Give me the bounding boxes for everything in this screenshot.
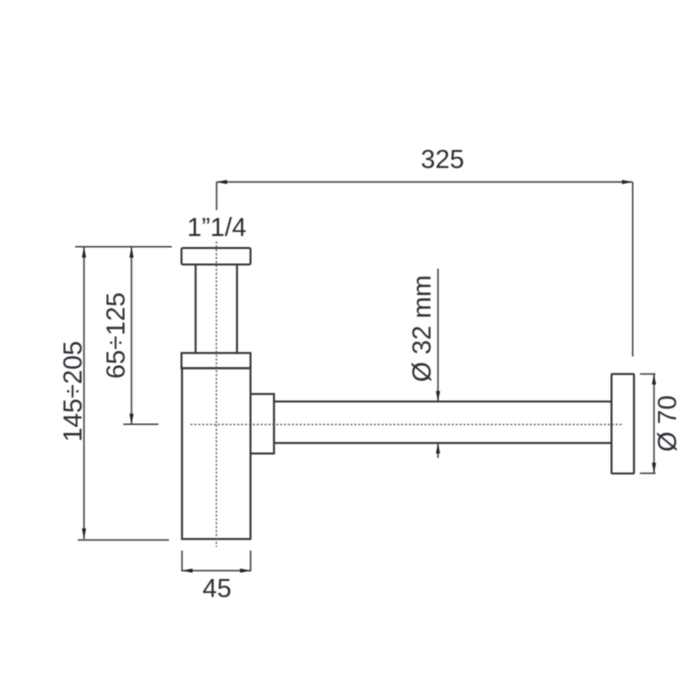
svg-text:145÷205: 145÷205: [58, 341, 88, 442]
svg-text:Ø 32 mm: Ø 32 mm: [407, 275, 437, 382]
compression nut: [182, 353, 251, 368]
label 1"1/4: [187, 212, 246, 242]
flange top extension line: [75, 246, 172, 248]
dimension Ø70 line: [652, 374, 656, 473]
dimension 65÷125 label: [101, 292, 131, 379]
horizontal wall tube: [274, 402, 612, 444]
dimension 65÷125 line: [129, 247, 133, 424]
dimension Ø32 lower line: [436, 443, 440, 458]
dimension Ø32 upper line: [436, 269, 440, 402]
vertical centerline: [215, 242, 217, 548]
dimension Ø70 bottom tick: [640, 472, 656, 474]
svg-text:1”1/4: 1”1/4: [187, 212, 246, 242]
dimension 325 left extension line: [216, 182, 218, 210]
dimension 45 line: [182, 569, 251, 573]
outlet axis tick: [123, 423, 158, 425]
horizontal centerline: [191, 424, 624, 426]
dimension 325 right extension line: [632, 182, 634, 357]
svg-text:Ø 70: Ø 70: [652, 395, 682, 451]
body bottom extension line: [78, 539, 169, 541]
trap body: [182, 368, 251, 539]
top flange: [182, 248, 251, 265]
dimension 45 left extension line: [181, 551, 183, 572]
svg-text:325: 325: [421, 144, 464, 174]
svg-text:45: 45: [203, 573, 232, 603]
outlet connector: [251, 394, 275, 454]
svg-text:65÷125: 65÷125: [101, 292, 131, 379]
dimension 45 label: [203, 573, 232, 603]
wall flange: [612, 374, 635, 474]
dimension 325 line: [216, 180, 632, 184]
dimension 145÷205 label: [58, 341, 88, 442]
dimension 325 label: [421, 144, 464, 174]
inlet pipe: [196, 265, 237, 354]
dimension Ø70 label: [652, 395, 682, 451]
dimension 145÷205 line: [82, 247, 86, 539]
dimension Ø32 label: [407, 275, 437, 382]
dimension 45 right extension line: [250, 551, 252, 572]
dimension Ø70 top tick: [640, 373, 656, 375]
